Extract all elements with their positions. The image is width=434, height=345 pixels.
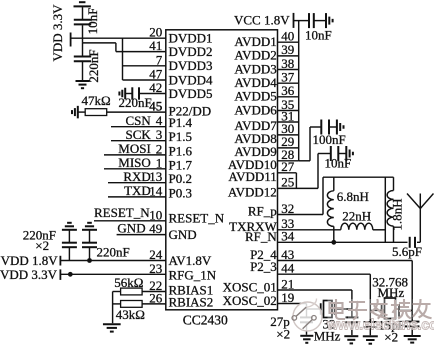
svg-text:1: 1	[156, 155, 163, 170]
svg-text:100nF: 100nF	[313, 132, 346, 147]
svg-text:×2: ×2	[35, 238, 49, 253]
svg-text:RF_N: RF_N	[245, 229, 277, 244]
svg-text:6.8nH: 6.8nH	[337, 189, 369, 204]
svg-text:TXD: TXD	[124, 183, 151, 198]
svg-text:3: 3	[156, 127, 163, 142]
svg-text:7: 7	[156, 52, 163, 67]
svg-text:www.elecfans.com: www.elecfans.com	[326, 318, 434, 334]
svg-text:AVDD11: AVDD11	[228, 169, 276, 184]
svg-text:2: 2	[156, 141, 163, 156]
svg-text:MOSI: MOSI	[118, 141, 151, 156]
svg-text:MHz: MHz	[378, 285, 405, 300]
svg-text:32: 32	[281, 201, 294, 216]
svg-text:DVDD3: DVDD3	[169, 58, 213, 73]
svg-text:19: 19	[281, 290, 294, 305]
svg-text:VDD 1.8V: VDD 1.8V	[1, 253, 59, 268]
svg-text:10nF: 10nF	[85, 8, 100, 35]
svg-text:13: 13	[149, 169, 162, 184]
svg-text:GND: GND	[169, 227, 197, 242]
svg-text:10nF: 10nF	[325, 156, 352, 171]
svg-text:P1.4: P1.4	[169, 115, 193, 130]
svg-text:56kΩ: 56kΩ	[114, 275, 143, 290]
svg-text:RESET_N: RESET_N	[94, 205, 150, 220]
svg-text:10nF: 10nF	[305, 28, 332, 43]
svg-text:P1.5: P1.5	[169, 129, 192, 144]
svg-text:P0.3: P0.3	[169, 185, 192, 200]
svg-text:CC2430: CC2430	[183, 313, 228, 328]
svg-text:DVDD2: DVDD2	[169, 44, 213, 59]
svg-text:P1.6: P1.6	[169, 143, 193, 158]
svg-text:GND: GND	[117, 221, 145, 236]
svg-text:P0.2: P0.2	[169, 171, 192, 186]
svg-text:220nF: 220nF	[119, 95, 152, 110]
svg-text:47kΩ: 47kΩ	[82, 93, 111, 108]
svg-text:P1.7: P1.7	[169, 157, 193, 172]
svg-text:AV1.8V: AV1.8V	[169, 253, 212, 268]
svg-text:AVDD12: AVDD12	[228, 185, 277, 200]
svg-text:23: 23	[149, 261, 162, 276]
svg-text:AVDD6: AVDD6	[234, 102, 277, 117]
svg-text:RBIAS2: RBIAS2	[169, 295, 214, 310]
svg-text:RESET_N: RESET_N	[169, 210, 225, 225]
svg-text:CSN: CSN	[126, 113, 152, 128]
svg-text:DVDD5: DVDD5	[169, 86, 213, 101]
svg-text:25: 25	[281, 175, 294, 190]
svg-text:42: 42	[149, 80, 162, 95]
svg-text:45: 45	[149, 99, 162, 114]
svg-text:41: 41	[149, 38, 162, 53]
svg-text:XOSC_02: XOSC_02	[223, 293, 277, 308]
svg-text:49: 49	[149, 221, 162, 236]
svg-text:26: 26	[149, 290, 163, 305]
svg-text:×2: ×2	[276, 327, 290, 342]
svg-text:34: 34	[281, 229, 295, 244]
svg-text:SCK: SCK	[126, 127, 152, 142]
svg-text:4: 4	[156, 113, 163, 128]
svg-text:43kΩ: 43kΩ	[116, 307, 145, 322]
svg-text:RXD: RXD	[123, 169, 150, 184]
svg-text:220nF: 220nF	[97, 245, 130, 260]
svg-text:VDD 3.3V: VDD 3.3V	[50, 4, 65, 62]
svg-text:VDD 3.3V: VDD 3.3V	[0, 267, 58, 282]
svg-text:14: 14	[149, 183, 163, 198]
svg-text:44: 44	[281, 261, 295, 276]
svg-text:VCC 1.8V: VCC 1.8V	[234, 13, 290, 28]
svg-text:24: 24	[149, 247, 163, 262]
svg-text:10: 10	[149, 207, 162, 222]
svg-text:1.8nH: 1.8nH	[390, 198, 405, 230]
svg-text:RFG_1N: RFG_1N	[169, 268, 217, 283]
svg-text:P2_3: P2_3	[250, 259, 277, 274]
svg-text:22nH: 22nH	[342, 209, 371, 224]
svg-text:220nF: 220nF	[86, 49, 101, 82]
svg-text:MISO: MISO	[118, 155, 151, 170]
svg-text:5.6pF: 5.6pF	[392, 244, 422, 259]
svg-text:RF_p: RF_p	[248, 204, 277, 219]
